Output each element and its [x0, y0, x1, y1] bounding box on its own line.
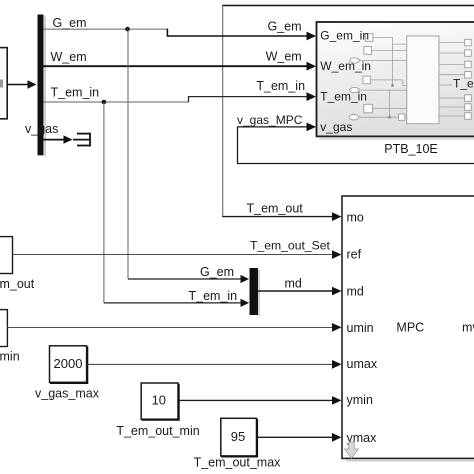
- svg-text:v_gas: v_gas: [25, 122, 58, 136]
- wire v_gas_MPC feedback: [238, 123, 474, 164]
- svg-text:md: md: [285, 277, 302, 291]
- svg-text:min: min: [0, 350, 20, 364]
- block 2000: [50, 346, 88, 383]
- wire T_em_in to mux: [104, 102, 249, 307]
- terminator: [73, 133, 90, 147]
- svg-text:T_em_in: T_em_in: [256, 79, 305, 93]
- wire v_gas: [44, 135, 73, 143]
- label PTB_10E: [384, 142, 438, 156]
- svg-text:v_gas: v_gas: [320, 120, 352, 134]
- MPC port label mo: [347, 211, 364, 225]
- block source (cut at left): [0, 48, 7, 119]
- PTB preview right port squares: [465, 39, 472, 119]
- wire umax: [87, 360, 341, 369]
- PTB preview big rect: [407, 36, 439, 124]
- label v_gas_MPC: [237, 113, 303, 127]
- wire T_em_in: [44, 92, 317, 104]
- svg-text:G_em: G_em: [200, 265, 234, 279]
- label min: [0, 350, 20, 364]
- svg-text:T_em_out_min: T_em_out_min: [116, 424, 199, 438]
- wire G_em: [44, 27, 317, 41]
- label T_em_out_max: [194, 456, 282, 470]
- block min (cut at left): [0, 310, 7, 347]
- PTB port label v_gas: [320, 120, 352, 134]
- block em_out (cut at left): [0, 237, 13, 274]
- MPC port label umax: [347, 357, 378, 371]
- block 95: [221, 418, 257, 456]
- svg-text:PTB_10E: PTB_10E: [384, 142, 438, 156]
- PTB preview junction dots: [388, 84, 394, 119]
- svg-text:G_em_in: G_em_in: [320, 28, 369, 42]
- label T_em_in (mux): [189, 289, 238, 303]
- svg-text:T_em_in: T_em_in: [189, 289, 238, 303]
- svg-text:W_em: W_em: [266, 49, 302, 63]
- svg-text:W_em: W_em: [51, 50, 87, 64]
- svg-text:2000: 2000: [54, 356, 83, 371]
- MPC port label ref: [347, 248, 362, 262]
- svg-text:T_em_in: T_em_in: [51, 86, 100, 100]
- label G_em (demux): [53, 16, 87, 30]
- wire G_em to mux: [128, 29, 249, 283]
- MPC port label umin: [347, 321, 374, 335]
- label v_gas (demux): [25, 122, 58, 136]
- PTB preview left port squares: [363, 34, 373, 113]
- mux bar: [250, 268, 261, 317]
- svg-text:umin: umin: [347, 321, 374, 335]
- PTB output label T_em_out: [453, 77, 474, 91]
- svg-text:ymin: ymin: [347, 393, 373, 407]
- wire ymin: [179, 396, 342, 405]
- label v_gas_max: [35, 387, 100, 401]
- svg-text:v_gas_max: v_gas_max: [35, 387, 100, 401]
- demux bar: [38, 15, 47, 157]
- label W_em (PTB): [266, 49, 302, 63]
- wire ymax: [257, 433, 341, 442]
- svg-text:10: 10: [152, 393, 166, 408]
- svg-text:G_em: G_em: [268, 20, 302, 34]
- MPC port label ymax: [347, 431, 378, 445]
- MPC label: [396, 321, 424, 335]
- subsystem PTB_10E: [317, 22, 474, 139]
- label T_em_in (demux): [51, 86, 100, 100]
- block 10: [141, 383, 179, 420]
- svg-text:T_em_out_Set: T_em_out_Set: [250, 239, 331, 253]
- label T_em_out_min: [116, 424, 199, 438]
- svg-text:T_em_out: T_em_out: [247, 202, 304, 216]
- PTB port label W_em_in: [320, 59, 371, 73]
- label G_em (mux): [200, 265, 234, 279]
- PTB preview small square: [399, 114, 405, 120]
- svg-text:MPC: MPC: [396, 321, 424, 335]
- svg-text:T_em_out_max: T_em_out_max: [194, 456, 282, 470]
- svg-text:umax: umax: [347, 357, 378, 371]
- MPC output label mv: [462, 321, 474, 335]
- PTB port label T_em_in: [320, 89, 367, 103]
- svg-text:T_em_in: T_em_in: [320, 89, 367, 103]
- block MPC: [342, 196, 474, 461]
- svg-text:95: 95: [231, 429, 245, 444]
- svg-text:em_out: em_out: [0, 277, 35, 291]
- label T_em_out: [247, 202, 304, 216]
- wire md: [258, 287, 342, 296]
- svg-text:md: md: [347, 285, 364, 299]
- wire T_em_out loop: [222, 6, 474, 222]
- label T_em_in (PTB): [256, 79, 305, 93]
- PTB port label G_em_in: [320, 28, 369, 42]
- svg-text:G_em: G_em: [53, 16, 87, 30]
- label G_em (PTB): [268, 20, 302, 34]
- PTB preview ovals: [349, 58, 359, 120]
- label W_em (demux): [51, 50, 87, 64]
- label em_out: [0, 277, 35, 291]
- wire T_em_out_Set (ref): [13, 250, 342, 259]
- svg-text:T_em_out: T_em_out: [453, 77, 474, 91]
- wire W_em: [44, 62, 317, 71]
- MPC gray input icon: [345, 442, 359, 458]
- label md: [285, 277, 302, 291]
- MPC port label md: [347, 285, 364, 299]
- wire source to demux: [7, 80, 36, 89]
- svg-text:ref: ref: [347, 248, 362, 262]
- MPC port label ymin: [347, 393, 373, 407]
- svg-text:mv: mv: [462, 321, 474, 335]
- label T_em_out_Set: [250, 239, 331, 253]
- PTB preview wires: [359, 37, 465, 117]
- svg-text:mo: mo: [347, 211, 364, 225]
- wire umin: [7, 323, 341, 332]
- svg-text:v_gas_MPC: v_gas_MPC: [237, 113, 303, 127]
- svg-text:W_em_in: W_em_in: [320, 59, 371, 73]
